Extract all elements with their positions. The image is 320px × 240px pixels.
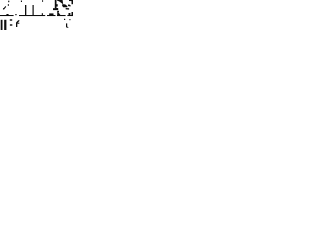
bottom r arm (17, 23, 19, 24)
bottom r vertical (16, 23, 17, 27)
bold block (53, 8, 58, 10)
stem A (25, 5, 26, 16)
bottom dash lower (10, 24, 12, 25)
glyph1 dot mid (8, 4, 9, 6)
glyph1 base bar (0, 15, 14, 16)
br note foot (67, 26, 69, 28)
glyph1 diagonal (3, 6, 6, 10)
stem B (33, 5, 34, 16)
baseline dot x15.5 (15, 14, 16, 15)
main baseline (19, 15, 45, 16)
badge triangle (57, 11, 60, 15)
badge right bar bottom (72, 12, 74, 16)
badge top bar right (69, 0, 73, 1)
br note vertical (66, 23, 67, 27)
badge wave lower (66, 8, 69, 10)
badge right bar top (72, 0, 74, 4)
badge baseline left (57, 15, 66, 16)
badge wave right (68, 5, 71, 7)
baseline x47-55.5 (47, 15, 56, 16)
badge wave main (62, 4, 67, 7)
badge left bar (56, 4, 58, 6)
top dot x21 (21, 1, 22, 3)
bold stem x55 (55, 0, 57, 8)
glyph1 dot top (8, 1, 9, 3)
glyph1 diagonal foot dot (3, 8, 4, 9)
bump x49-53 (49, 13, 53, 15)
br dot 1 (64, 19, 65, 20)
base dot x42 (42, 13, 43, 15)
badge triangle apex nub (57, 11, 59, 12)
badge top-left arc (57, 0, 63, 4)
bottom bar I1 (1, 20, 3, 30)
top dot x42 (42, 0, 43, 2)
badge arrow block (69, 13, 71, 15)
bottom bar I2 (4, 20, 6, 30)
bottom dash upper (10, 19, 12, 20)
glyph1 bump (6, 14, 8, 15)
bottom diagonal (16, 20, 19, 23)
badge left block (56, 8, 58, 10)
br dot 2 (69, 19, 70, 20)
badge baseline right (67, 15, 73, 16)
